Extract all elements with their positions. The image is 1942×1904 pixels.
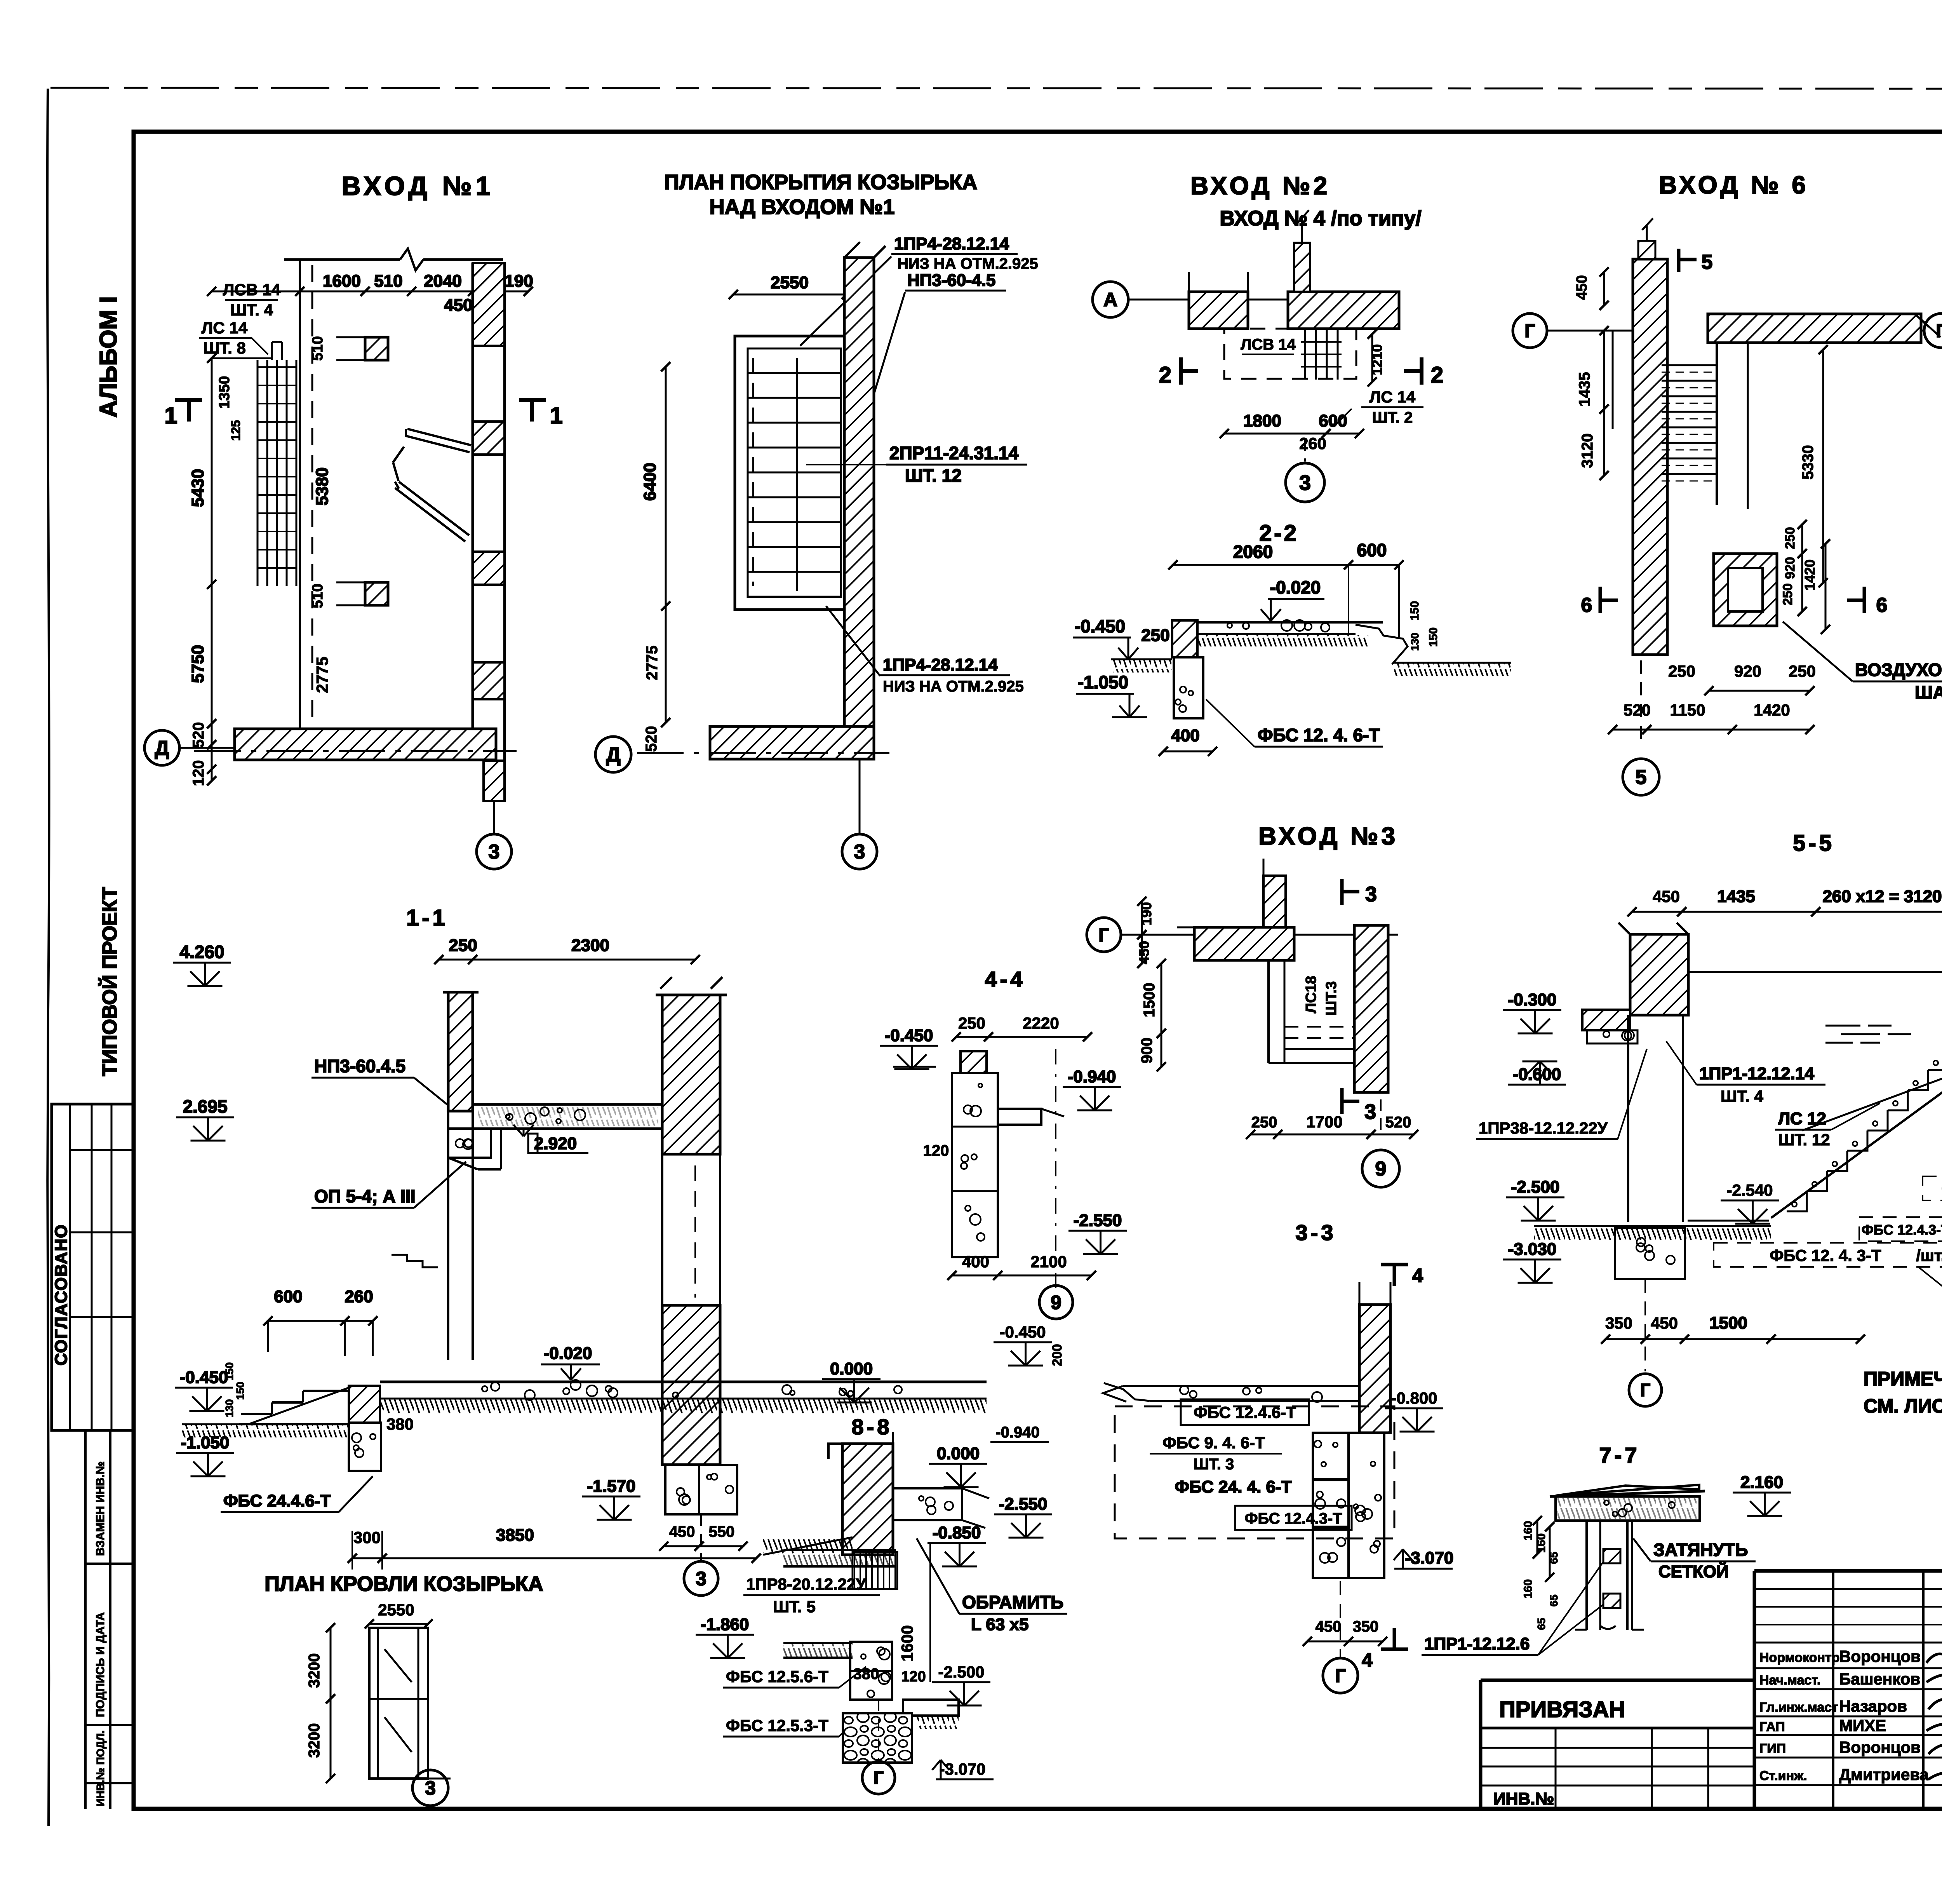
axis line dashed s44 — [1055, 1049, 1056, 1290]
svg-text:ПРИМЕЧАНИЯ И СПЕЦИФИКАЦИЮ ИЗДЕ: ПРИМЕЧАНИЯ И СПЕЦИФИКАЦИЮ ИЗДЕЛИЙ — [1864, 1367, 1942, 1390]
svg-text:-0.450: -0.450 — [885, 1026, 933, 1045]
svg-text:ШТ. 8: ШТ. 8 — [203, 339, 246, 357]
svg-text:Воронцов: Воронцов — [1839, 1738, 1921, 1756]
axis circle 3 roof — [412, 1770, 448, 1806]
axis dashed line — [311, 265, 313, 726]
pit entrance3 — [1267, 960, 1270, 1063]
canopy slab 7-7 — [1556, 1485, 1699, 1496]
svg-text:3: 3 — [854, 841, 865, 863]
svg-text:450: 450 — [1316, 1618, 1342, 1635]
svg-text:ПРИВЯЗАН: ПРИВЯЗАН — [1499, 1697, 1625, 1722]
svg-text:Нормоконтр: Нормоконтр — [1759, 1650, 1839, 1665]
svg-text:380: 380 — [853, 1665, 879, 1683]
axis circle 3 entrance2 — [1304, 439, 1306, 462]
svg-text:ИНВ.№: ИНВ.№ — [1493, 1789, 1554, 1808]
svg-text:1500: 1500 — [1141, 983, 1158, 1017]
svg-text:ШТ. 5: ШТ. 5 — [773, 1597, 816, 1616]
svg-text:1150: 1150 — [1670, 701, 1705, 719]
svg-text:ФБС 12.4.6-Т: ФБС 12.4.6-Т — [1194, 1403, 1296, 1421]
svg-text:-0.300: -0.300 — [1508, 990, 1557, 1009]
svg-text:МИХЕ: МИХЕ — [1839, 1716, 1886, 1735]
svg-text:1ПР4-28.12.14: 1ПР4-28.12.14 — [894, 234, 1009, 253]
svg-text:Г: Г — [1640, 1380, 1650, 1400]
svg-text:-2.550: -2.550 — [999, 1495, 1048, 1514]
dim 250 920 250 — [1709, 690, 1810, 692]
svg-text:2100: 2100 — [1030, 1252, 1067, 1271]
2-2 wall hatched — [1172, 620, 1197, 657]
svg-text:ШТ. 12: ШТ. 12 — [905, 465, 962, 486]
svg-text:-0.850: -0.850 — [933, 1523, 981, 1542]
svg-text:2550: 2550 — [378, 1601, 414, 1619]
axis circle 3 canopy — [859, 801, 861, 834]
svg-text:-1.570: -1.570 — [587, 1477, 636, 1496]
svg-text:600: 600 — [1357, 540, 1387, 560]
wall vertical hatched entrance6 — [1633, 259, 1667, 655]
svg-text:6: 6 — [1581, 594, 1592, 617]
section mark 6 left — [1599, 587, 1602, 613]
svg-text:190: 190 — [505, 272, 533, 291]
foundation 5-5 — [1615, 1228, 1685, 1279]
svg-text:3: 3 — [1365, 883, 1377, 906]
stamp table СОГЛАСОВАНО — [52, 1104, 134, 1430]
svg-text:ШАХТА: ШАХТА — [1915, 682, 1942, 702]
svg-text:НИЗ НА ОТМ.2.925: НИЗ НА ОТМ.2.925 — [897, 255, 1038, 272]
svg-text:250: 250 — [1251, 1114, 1277, 1131]
svg-text:СЕТКОЙ: СЕТКОЙ — [1658, 1561, 1729, 1581]
svg-text:Д: Д — [606, 744, 620, 766]
svg-text:250: 250 — [1780, 584, 1795, 606]
wall left hatched — [1189, 292, 1248, 329]
dashed label boxes ФБС 5-5 — [1923, 1176, 1942, 1200]
svg-text:ВХОД № 6: ВХОД № 6 — [1659, 171, 1809, 199]
svg-text:НИЗ НА ОТМ.2.925: НИЗ НА ОТМ.2.925 — [883, 678, 1024, 695]
svg-text:160: 160 — [1522, 1579, 1535, 1599]
wall hatched s88 — [842, 1444, 893, 1555]
svg-text:900: 900 — [1138, 1038, 1155, 1064]
svg-text:2060: 2060 — [1233, 542, 1273, 562]
svg-text:ГИП: ГИП — [1759, 1741, 1786, 1756]
svg-text:400: 400 — [962, 1252, 989, 1271]
title block signature columns — [1832, 1571, 1834, 1809]
svg-text:250: 250 — [958, 1014, 985, 1032]
svg-text:510: 510 — [310, 336, 326, 361]
svg-text:3: 3 — [489, 841, 500, 863]
svg-text:ЗАТЯНУТЬ: ЗАТЯНУТЬ — [1653, 1540, 1748, 1560]
svg-text:1ПР1-12.12.6: 1ПР1-12.12.6 — [1424, 1634, 1530, 1653]
wall top broken line — [284, 258, 400, 261]
svg-text:150: 150 — [223, 1362, 235, 1381]
axis circle 9 s44 — [1039, 1286, 1073, 1319]
svg-text:ФБС 24.4.6-Т: ФБС 24.4.6-Т — [223, 1491, 331, 1510]
svg-text:ЛС18: ЛС18 — [1303, 976, 1319, 1013]
svg-text:Г: Г — [1524, 321, 1535, 341]
svg-text:400: 400 — [1171, 726, 1199, 745]
wall 1-1 right hatched upper — [662, 995, 720, 1154]
section mark 2 right — [1420, 357, 1423, 385]
svg-text:Воронцов: Воронцов — [1839, 1647, 1921, 1665]
svg-text:ПОДПИСЬ И ДАТА: ПОДПИСЬ И ДАТА — [94, 1612, 107, 1717]
svg-text:600: 600 — [274, 1287, 302, 1306]
axis circle Г s33 — [1340, 1581, 1341, 1658]
post 7-7 — [1585, 1521, 1588, 1630]
dim 5330 right — [1822, 350, 1824, 583]
svg-text:ВХОД № 4 /по типу/: ВХОД № 4 /по типу/ — [1220, 207, 1421, 230]
floor slab lower left s88 — [783, 1642, 853, 1644]
svg-text:ШТ. 2: ШТ. 2 — [1372, 409, 1413, 426]
dim line left vertical — [211, 358, 213, 781]
paper top edge — [50, 88, 1942, 89]
svg-text:2.920: 2.920 — [534, 1134, 577, 1153]
section mark 3 top — [1340, 879, 1344, 905]
wall 1-1 left lines — [447, 1111, 449, 1360]
svg-text:350: 350 — [1353, 1618, 1379, 1635]
wall 1-1 right hatched lower — [662, 1305, 720, 1465]
dim 450 550 — [664, 1545, 743, 1547]
svg-text:-0.020: -0.020 — [1270, 577, 1321, 598]
svg-text:5: 5 — [1636, 766, 1647, 789]
dim 400 2100 — [952, 1275, 1091, 1277]
svg-text:ФБС 12.4.3-Т: ФБС 12.4.3-Т — [1244, 1510, 1342, 1527]
svg-text:450: 450 — [1651, 1314, 1678, 1332]
axis circle Д — [144, 730, 179, 765]
svg-text:НАД ВХОДОМ №1: НАД ВХОДОМ №1 — [709, 195, 894, 219]
svg-text:520: 520 — [190, 722, 207, 748]
axis circle 3 — [493, 801, 495, 834]
svg-text:2775: 2775 — [644, 646, 661, 680]
label ФБС 12.4.6-Т box — [1181, 1399, 1309, 1425]
axis circle Г s88 — [878, 1700, 879, 1761]
svg-text:ТИПОВОЙ ПРОЕКТ: ТИПОВОЙ ПРОЕКТ — [98, 887, 121, 1076]
section mark 6 right — [1863, 587, 1866, 613]
svg-text:ФБС 12.5.3-Т: ФБС 12.5.3-Т — [726, 1716, 828, 1735]
wall right s33 hatched — [1359, 1305, 1390, 1433]
steps s33 left — [1104, 1383, 1150, 1401]
wall stub top entrance6 — [1638, 241, 1655, 259]
svg-text:7-7: 7-7 — [1599, 1443, 1640, 1467]
svg-text:250: 250 — [1141, 626, 1169, 645]
svg-text:520: 520 — [1624, 701, 1651, 719]
wall 5-5 hatched top — [1630, 934, 1688, 1015]
svg-text:L 63 х5: L 63 х5 — [971, 1615, 1028, 1634]
svg-text:Д: Д — [155, 737, 169, 760]
dim 250 1700 520 — [1251, 1134, 1414, 1136]
wall left horizontal hatched — [1194, 927, 1294, 960]
svg-text:250: 250 — [449, 936, 477, 955]
svg-text:Г: Г — [874, 1768, 884, 1788]
svg-text:250: 250 — [1783, 527, 1798, 549]
step mark small — [392, 1255, 438, 1267]
svg-text:1ПР1-12.12.14: 1ПР1-12.12.14 — [1699, 1064, 1814, 1083]
canopy slab grid — [735, 336, 854, 610]
svg-text:ВОЗДУХОЗАБОРНАЯ: ВОЗДУХОЗАБОРНАЯ — [1855, 660, 1942, 680]
wall right with openings — [472, 263, 474, 761]
svg-text:ФБС 12.4.3-Т: ФБС 12.4.3-Т — [1862, 1222, 1942, 1238]
svg-text:1600: 1600 — [898, 1625, 916, 1661]
svg-text:550: 550 — [709, 1523, 735, 1540]
title block small rows left — [1481, 1747, 1754, 1749]
svg-text:5330: 5330 — [1799, 445, 1817, 480]
svg-text:150: 150 — [1427, 627, 1440, 647]
svg-text:1ПР4-28.12.14: 1ПР4-28.12.14 — [883, 655, 998, 674]
svg-text:5-5: 5-5 — [1793, 831, 1835, 856]
hatched column square lower — [365, 582, 388, 605]
svg-text:6400: 6400 — [640, 463, 660, 501]
section mark 2 left — [1179, 357, 1183, 385]
svg-text:1ПР38-12.12.22У: 1ПР38-12.12.22У — [1479, 1119, 1608, 1137]
ground left s88 — [763, 1537, 853, 1555]
ground slab 1-1 — [380, 1381, 987, 1383]
svg-text:Дмитриева: Дмитриева — [1839, 1765, 1929, 1784]
svg-text:-0.020: -0.020 — [544, 1344, 592, 1363]
svg-text:65: 65 — [1535, 1618, 1547, 1630]
svg-text:-2.550: -2.550 — [1074, 1211, 1122, 1230]
svg-text:600: 600 — [1319, 411, 1347, 430]
wall right vertical hatched — [1354, 925, 1388, 1092]
svg-text:-0.940: -0.940 — [1068, 1067, 1116, 1086]
svg-text:1: 1 — [550, 402, 562, 429]
svg-text:1-1: 1-1 — [406, 905, 448, 930]
svg-text:200: 200 — [1050, 1344, 1065, 1366]
svg-text:ЛС 14: ЛС 14 — [202, 319, 248, 337]
label ФБС 12.4.3-Т s33 — [1235, 1506, 1352, 1530]
slab right s44 — [998, 1109, 1041, 1125]
svg-text:ЛС 14: ЛС 14 — [1369, 388, 1416, 406]
dim line top — [212, 291, 528, 293]
svg-text:ФБС 12. 4. 6-Т: ФБС 12. 4. 6-Т — [1258, 725, 1380, 745]
wall inner line — [299, 260, 301, 729]
2-2 foundation block ФБС — [1174, 657, 1203, 718]
svg-text:ШТ. 4: ШТ. 4 — [1721, 1087, 1763, 1105]
svg-text:300: 300 — [353, 1528, 381, 1547]
canopy dim left vertical — [665, 367, 667, 723]
svg-text:3850: 3850 — [496, 1526, 534, 1545]
svg-text:2775: 2775 — [313, 657, 331, 693]
svg-text:5750: 5750 — [188, 645, 207, 683]
hatched column square upper — [365, 337, 388, 360]
ground line s55 — [1534, 1225, 1771, 1227]
svg-text:ВХОД №3: ВХОД №3 — [1258, 822, 1398, 850]
svg-text:Г: Г — [1335, 1666, 1345, 1686]
canopy axis dash-dot — [637, 752, 889, 754]
svg-text:-3.030: -3.030 — [1508, 1240, 1557, 1259]
foundation blocks 1-1 right — [665, 1465, 699, 1514]
pit dashed outline — [1224, 329, 1356, 379]
svg-text:520: 520 — [1385, 1114, 1411, 1131]
svg-text:150: 150 — [234, 1382, 246, 1400]
svg-text:9: 9 — [1375, 1158, 1387, 1180]
svg-text:-0.450: -0.450 — [180, 1368, 228, 1387]
svg-text:ШТ. 3: ШТ. 3 — [1194, 1456, 1234, 1473]
svg-text:450: 450 — [669, 1523, 695, 1540]
wall 1-1 right lines — [661, 1154, 663, 1305]
svg-text:-1.050: -1.050 — [1078, 672, 1128, 692]
svg-text:ЛС 12: ЛС 12 — [1778, 1109, 1826, 1128]
svg-text:1435: 1435 — [1717, 887, 1755, 906]
svg-text:-0.450: -0.450 — [1075, 616, 1125, 636]
svg-text:2220: 2220 — [1023, 1014, 1059, 1032]
axis circle Г s55 — [1644, 1279, 1646, 1371]
svg-text:1700: 1700 — [1306, 1113, 1342, 1131]
svg-text:1500: 1500 — [1709, 1313, 1747, 1333]
svg-text:65: 65 — [1548, 1594, 1560, 1606]
svg-text:8-8: 8-8 — [852, 1414, 893, 1439]
svg-text:120: 120 — [901, 1669, 926, 1685]
section mark 1 right — [519, 398, 546, 402]
svg-text:130: 130 — [1409, 633, 1421, 651]
dim 350 450 1500 — [1606, 1338, 1860, 1340]
canopy bottom wall hatched — [710, 726, 874, 759]
svg-text:Башенков: Башенков — [1839, 1670, 1920, 1688]
title block cell ПРИВЯЗАН — [1481, 1727, 1754, 1730]
axis circle Г entrance3 — [1087, 918, 1121, 952]
2-2 ground left — [1113, 658, 1172, 660]
svg-text:510: 510 — [374, 272, 402, 291]
svg-text:-1.860: -1.860 — [701, 1615, 749, 1634]
dim 450 1435 3120 left — [1603, 272, 1605, 305]
2-2 top slab — [1172, 621, 1383, 624]
2-2 ground right — [1394, 662, 1511, 664]
svg-text:Гл.инж.маст: Гл.инж.маст — [1759, 1700, 1838, 1715]
svg-text:ПЛАН КРОВЛИ КОЗЫРЬКА: ПЛАН КРОВЛИ КОЗЫРЬКА — [265, 1572, 543, 1596]
paper left edge — [47, 89, 49, 1826]
stairs entrance6 — [1662, 364, 1716, 366]
svg-text:5430: 5430 — [188, 469, 207, 507]
svg-text:2: 2 — [1431, 362, 1443, 388]
axis circle А — [1093, 282, 1128, 317]
door leaf upper — [407, 429, 471, 445]
svg-text:1: 1 — [164, 402, 177, 429]
svg-text:4-4: 4-4 — [985, 967, 1026, 991]
section mark 5 top — [1677, 249, 1681, 272]
svg-text:120: 120 — [190, 760, 207, 786]
svg-text:4: 4 — [1362, 1649, 1373, 1671]
ground left 1-1 — [182, 1423, 349, 1425]
canopy wall right hatched — [844, 258, 874, 732]
svg-text:0.000: 0.000 — [937, 1444, 980, 1463]
pit walls entrance6 — [1716, 343, 1718, 505]
svg-text:Г: Г — [1098, 925, 1109, 946]
dim 2060 600 — [1173, 564, 1399, 566]
slab 1-1 — [473, 1104, 663, 1129]
svg-text:920: 920 — [1783, 557, 1798, 579]
svg-text:ФБС 12. 4. 3-Т: ФБС 12. 4. 3-Т — [1770, 1246, 1881, 1265]
svg-text:2: 2 — [1159, 362, 1171, 388]
svg-text:3-3: 3-3 — [1296, 1220, 1336, 1245]
axis circle Г entrance6 right — [1924, 314, 1942, 348]
svg-text:ИНВ.№ ПОДЛ.: ИНВ.№ ПОДЛ. — [94, 1730, 106, 1806]
svg-text:260 х12 = 3120: 260 х12 = 3120 — [1822, 887, 1942, 906]
axis circle 3 s11 — [700, 1514, 702, 1561]
axis circle 5 entrance6 — [1640, 660, 1642, 740]
slab left 5-5 — [1582, 1010, 1630, 1030]
title block outer — [1481, 1679, 1754, 1682]
slab right s88 — [893, 1488, 962, 1520]
svg-text:130: 130 — [223, 1399, 235, 1418]
pier cap hatched s44 — [961, 1051, 987, 1073]
svg-text:-1.050: -1.050 — [181, 1433, 230, 1452]
wall 5-5 lines — [1627, 1015, 1629, 1222]
section mark 3 bottom — [1340, 1088, 1344, 1114]
floor slabs s88 — [783, 1549, 896, 1551]
svg-text:1435: 1435 — [1576, 372, 1593, 407]
axis circle Д canopy — [595, 737, 631, 772]
svg-text:-3.070: -3.070 — [1405, 1549, 1454, 1568]
dim 600 260 — [268, 1320, 373, 1322]
svg-text:/шт. 4 /: /шт. 4 / — [1916, 1246, 1942, 1265]
svg-text:ШТ. 4: ШТ. 4 — [230, 301, 273, 319]
section mark 4 top — [1381, 1263, 1408, 1266]
svg-text:450: 450 — [1653, 887, 1680, 906]
svg-text:5: 5 — [1702, 251, 1713, 273]
wall bottom hatched — [235, 729, 496, 760]
svg-text:2.695: 2.695 — [183, 1096, 227, 1117]
svg-text:ЛСВ 14: ЛСВ 14 — [1241, 336, 1296, 353]
wall top right hatched entrance6 — [1708, 314, 1921, 343]
dim 450 350 s33 — [1307, 1641, 1383, 1643]
foundation blocks s33 — [1313, 1433, 1349, 1479]
section mark 4 bottom — [1381, 1648, 1408, 1651]
dim 1210 vertical — [1371, 334, 1373, 382]
axis dash-dot line Д — [194, 750, 517, 752]
svg-text:380: 380 — [386, 1415, 414, 1433]
svg-text:450: 450 — [1574, 275, 1590, 300]
section mark 1 left — [175, 398, 202, 402]
svg-text:ФБС 12.5.6-Т: ФБС 12.5.6-Т — [726, 1667, 828, 1686]
foundation 1-1 left — [349, 1386, 380, 1423]
svg-text:Нач.маст.: Нач.маст. — [1759, 1673, 1820, 1688]
mesh squares — [1603, 1549, 1620, 1563]
svg-text:СМ. ЛИСТ АС-18.: СМ. ЛИСТ АС-18. — [1864, 1395, 1942, 1417]
wall stub up hatched — [1294, 243, 1310, 292]
dim 250 2220 — [956, 1036, 1088, 1038]
svg-text:520: 520 — [643, 726, 660, 752]
svg-text:3: 3 — [1299, 471, 1311, 495]
grill element s88 — [854, 1552, 855, 1589]
svg-text:Г: Г — [1936, 321, 1942, 341]
svg-text:ПЛАН ПОКРЫТИЯ КОЗЫРЬКА: ПЛАН ПОКРЫТИЯ КОЗЫРЬКА — [664, 171, 977, 194]
svg-text:СОГЛАСОВАНО: СОГЛАСОВАНО — [52, 1224, 71, 1366]
dim 300 3850 — [352, 1557, 756, 1559]
wall 1-1 left hatched — [448, 992, 473, 1111]
svg-text:Ст.инж.: Ст.инж. — [1759, 1768, 1807, 1783]
slab support block ОП — [448, 1129, 491, 1158]
svg-text:-2.540: -2.540 — [1726, 1181, 1773, 1199]
svg-text:1800: 1800 — [1243, 411, 1281, 430]
svg-text:ШТ.3: ШТ.3 — [1323, 981, 1340, 1016]
svg-text:АЛЬБОМ I: АЛЬБОМ I — [95, 296, 122, 418]
svg-text:120: 120 — [923, 1142, 949, 1159]
svg-text:190: 190 — [1138, 902, 1154, 925]
brick marks right — [1825, 1026, 1911, 1043]
svg-text:НП3-60.4.5: НП3-60.4.5 — [314, 1056, 405, 1076]
svg-text:1350: 1350 — [216, 376, 233, 409]
svg-text:-2.500: -2.500 — [938, 1663, 984, 1681]
svg-text:ВХОД №1: ВХОД №1 — [341, 171, 494, 201]
svg-text:3200: 3200 — [306, 1723, 323, 1758]
svg-text:4.260: 4.260 — [179, 942, 224, 962]
slab top s33 — [1122, 1385, 1359, 1387]
svg-text:250: 250 — [1789, 662, 1816, 680]
svg-text:3: 3 — [425, 1777, 436, 1799]
svg-text:5380: 5380 — [313, 467, 332, 505]
svg-text:ЛСВ 14: ЛСВ 14 — [223, 280, 281, 299]
svg-text:2040: 2040 — [424, 272, 462, 291]
svg-text:3: 3 — [1364, 1100, 1376, 1124]
wall right hatched — [1288, 292, 1399, 329]
axis circle 9 entrance3 — [1380, 1099, 1382, 1134]
svg-text:450: 450 — [444, 296, 472, 315]
svg-text:ОБРАМИТЬ: ОБРАМИТЬ — [962, 1592, 1063, 1612]
